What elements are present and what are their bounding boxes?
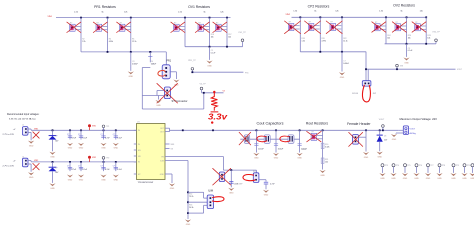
diode D protection (VIN2): [52, 161, 54, 163]
wire stub ST pin2: [142, 95, 164, 97]
junction OV1 lower bus col2: [209, 46, 211, 48]
wire Cout caps horizontal link: [240, 138, 299, 140]
ground below capacitor x70 (VIN2): [67, 175, 73, 178]
svg-text:ILIM: ILIM: [208, 188, 213, 192]
junction CF2 lower bus col2: [319, 51, 321, 53]
svg-text:R?: R?: [289, 22, 291, 24]
svg-text:5k: 5k: [400, 11, 402, 13]
svg-text:GND: GND: [297, 158, 302, 160]
trimmer resistor R3 (PR1, DNP): [96, 22, 107, 31]
svg-text:GND: GND: [392, 139, 397, 141]
svg-text:CP2 Resistors: CP2 Resistors: [308, 5, 330, 9]
wire SJ2 to C13: [259, 179, 266, 181]
svg-text:OV2 Resistors: OV2 Resistors: [393, 4, 415, 8]
svg-text:4.7uF: 4.7uF: [105, 138, 110, 140]
svg-text:C?: C?: [78, 134, 80, 136]
pin U1 left IN y130.3: [134, 129, 137, 131]
junction ILIM net pin3 jog: [187, 212, 189, 214]
wire FB net horizontal to jumpers: [223, 169, 256, 171]
pin U1 left IN y161.9: [134, 161, 137, 163]
svg-text:22V: 22V: [384, 139, 388, 141]
capacitor 0.1uF at x81 (VIN2): [80, 161, 82, 163]
svg-text:GND: GND: [170, 188, 175, 190]
svg-text:TP5: TP5: [407, 165, 410, 167]
svg-text:12k: 12k: [335, 11, 338, 13]
wire CF2 column 2: [319, 17, 321, 52]
junction OV2 col 1 on top bus: [385, 16, 387, 18]
red X no-fit mark over jumper SJ1: [213, 168, 231, 185]
wire PR1 column 2: [107, 18, 109, 52]
svg-text:5k: 5k: [314, 11, 316, 13]
wire OV1 column 1: [184, 18, 186, 47]
wire stub J2 pin1: [28, 160, 31, 162]
mounting part MTG1: [403, 126, 408, 135]
op-amp / regulator U1 TPS7A4701: [137, 124, 166, 180]
wire PR1_TP net: [191, 71, 243, 73]
wire diode to ground (VIN1): [52, 140, 54, 152]
svg-text:3.32k: 3.32k: [325, 147, 329, 149]
svg-text:GND: GND: [186, 224, 191, 226]
ground below capacitor x70 (VIN1): [67, 143, 73, 146]
red X no-fit mark over C10: [239, 132, 251, 145]
ground below TP5: [402, 173, 408, 176]
wire to ILIM pin2: [188, 201, 207, 203]
junction PR1 col 3 on top bus: [130, 17, 132, 19]
ground below C3: [128, 71, 134, 74]
trimmer resistor R17 (OV1, DNP): [216, 22, 227, 31]
svg-text:OV1 Resistors: OV1 Resistors: [188, 5, 210, 9]
junction ILIM net top jog: [187, 191, 189, 193]
svg-text:VOUT: VOUT: [410, 128, 416, 130]
jumper SJ1 (crossed, DNP): [219, 172, 224, 182]
wire stub ST pin1: [157, 90, 164, 92]
pin U1 left EP y174: [134, 173, 137, 175]
svg-text:C?: C?: [67, 166, 69, 168]
svg-text:JMP: JMP: [373, 93, 377, 95]
svg-text:VZ: VZ: [223, 90, 226, 92]
wire jog to ILIM pin1: [188, 191, 204, 193]
wire ILIM vertical bus: [187, 161, 189, 220]
wire diode to ground (VIN2): [52, 171, 54, 183]
junction FB net at cap column: [230, 169, 232, 171]
wire CF2 lower bus: [300, 51, 366, 53]
test point TP3 (spare): [381, 164, 384, 167]
svg-text:GND: GND: [340, 77, 345, 79]
red X no-fit mark over CF2 trimmer 2: [305, 21, 321, 34]
wire vertical joining ST stubs: [156, 91, 158, 96]
svg-text:GND: GND: [462, 178, 467, 180]
trimmer resistor (OV2 col 1, DNP): [375, 22, 386, 31]
svg-text:0.1uF: 0.1uF: [83, 169, 88, 171]
svg-text:VZ_TP: VZ_TP: [200, 84, 207, 86]
trimmer resistor (CF2 col 1, DNP): [288, 22, 299, 31]
svg-text:4.7uF: 4.7uF: [72, 169, 77, 171]
svg-text:GND: GND: [403, 178, 408, 180]
svg-text:VIN1: VIN1: [48, 16, 53, 18]
test point TP6 (spare): [415, 164, 418, 167]
wire OV2 column 1: [385, 17, 387, 44]
test point TP9 (spare): [452, 164, 455, 167]
wire diode D3 to ground: [379, 142, 381, 151]
wire top bus right (VIN2 net): [292, 16, 427, 18]
resistor R30 in Rout column: [321, 143, 324, 148]
svg-text:C?: C?: [113, 134, 115, 136]
svg-text:100uF: 100uF: [278, 149, 284, 151]
red X no-fit mark over female header: [349, 132, 363, 146]
ground left of ST connector: [158, 96, 160, 100]
boxed capacitor near Cout x256.4: [264, 135, 270, 144]
connector ST (2-pin, DNP): [164, 87, 170, 99]
svg-text:GND: GND: [437, 178, 442, 180]
test point TP7 (spare): [427, 164, 430, 167]
wire OV1 column 3: [226, 18, 228, 47]
ground below diode (VIN2): [49, 183, 55, 186]
svg-text:GND: GND: [79, 179, 84, 181]
red X no-fit mark over PR1 trimmer 2: [93, 22, 107, 32]
boxed capacitor near Cout x276: [288, 135, 294, 144]
wire OV2 column 3: [425, 17, 427, 44]
trimmer resistor (OV2 col 2, DNP): [395, 22, 406, 31]
svg-text:4.99k: 4.99k: [322, 41, 326, 43]
svg-text:PR1: PR1: [245, 72, 249, 74]
svg-text:24.3k: 24.3k: [189, 207, 193, 209]
svg-text:PR1 Resistors: PR1 Resistors: [94, 5, 116, 9]
wire OV2 lower bus: [385, 43, 436, 45]
capacitor 4.7uF at x70 (VIN2): [69, 161, 71, 163]
test point TP1: [102, 125, 105, 128]
wire PR1 column 3: [130, 18, 132, 52]
svg-text:TP9: TP9: [456, 165, 459, 167]
red power port VIN1: [88, 124, 91, 127]
svg-text:1.3k: 1.3k: [293, 11, 297, 13]
wire CF2 column 1: [299, 17, 301, 52]
junction Rout on VOUT bus: [322, 129, 324, 131]
wire stub J1 pin1: [28, 128, 31, 130]
resistor R31 in Rout column: [321, 158, 324, 163]
red X no-fit mark near J2: [33, 163, 39, 169]
svg-text:D3: D3: [384, 136, 386, 138]
pin MTG1 VOUT: [398, 129, 403, 131]
trimmer resistor (OV2 col 3, DNP): [415, 22, 426, 31]
ground at J2: [28, 172, 34, 175]
svg-text:FB_JMP: FB_JMP: [236, 183, 244, 185]
junction VOUT bus below 3.3v markup: [212, 129, 214, 131]
trimmer resistor R15 (OV1, DNP): [198, 22, 209, 31]
junction CF2 col 2 on top bus: [319, 16, 321, 18]
svg-text:TP6: TP6: [419, 165, 422, 167]
junction ILIM net pin2: [187, 201, 189, 203]
ground below diode (VIN1): [49, 152, 55, 155]
pin MTG1 Alt Mtg to ground: [396, 132, 403, 134]
wire bottom horizontal of ST connector net: [142, 108, 204, 110]
wire OV1 column 2: [209, 18, 211, 47]
capacitor C9 below OV2 lower bus: [406, 44, 408, 57]
svg-text:1.3k: 1.3k: [379, 11, 383, 13]
svg-text:GND: GND: [229, 193, 234, 195]
wire stub J1 pin2 to ground: [28, 131, 31, 133]
red X no-fit mark near J1: [33, 132, 39, 138]
junction VOUT bus at x182.8: [182, 129, 184, 131]
svg-text:10k: 10k: [211, 36, 214, 38]
pin U1 SNS stub: [165, 143, 170, 145]
svg-text:PR1: PR1: [166, 60, 171, 63]
junction CF2 col 1 on top bus: [299, 16, 301, 18]
wire left vertical of ST connector net: [141, 68, 143, 110]
ground below TP4: [390, 173, 396, 176]
svg-text:+V: +V: [13, 129, 16, 131]
svg-text:GND: GND: [414, 178, 419, 180]
svg-text:TP2: TP2: [106, 158, 109, 160]
red markup loop around jumper JP1: [362, 85, 370, 102]
svg-text:GND: GND: [320, 175, 325, 177]
ground at U1 GND pin: [169, 183, 175, 186]
svg-text:PR1_TP: PR1_TP: [188, 60, 196, 62]
pin U1 SS stub: [165, 148, 170, 150]
pin U1 FB wire: [165, 156, 223, 158]
ground below ILIM vertical bus: [185, 219, 191, 222]
svg-text:Rout Resistors: Rout Resistors: [306, 121, 329, 125]
capacitor 0.1uF at x115.8 (VIN1): [115, 129, 117, 131]
svg-text:TP8: TP8: [442, 165, 445, 167]
trimmer resistor R1 (PR1, DNP): [70, 22, 81, 31]
connector J1 (input power): [22, 127, 28, 136]
wire FB net vertical: [222, 157, 224, 171]
ground below female header column: [363, 152, 369, 155]
pin U1 left IN y144: [134, 143, 137, 145]
svg-text:C4: C4: [152, 63, 154, 65]
junction OV2 col 3 on top bus: [425, 16, 427, 18]
junction PR1 lower bus corner: [149, 51, 151, 53]
svg-text:SENSE: SENSE: [352, 93, 359, 95]
red markup loop around jumper SJ2: [243, 175, 255, 181]
svg-text:0.68uF: 0.68uF: [132, 63, 138, 65]
svg-text:0.1uF: 0.1uF: [83, 138, 88, 140]
svg-text:10k: 10k: [228, 36, 231, 38]
red markup resistor (hand-drawn zigzag): [211, 93, 219, 112]
wire VOUT sense net y69: [366, 68, 456, 70]
red X no-fit mark over OV1 trimmer 3: [213, 22, 227, 32]
ground below C13: [263, 190, 269, 193]
svg-text:10k: 10k: [387, 38, 390, 40]
ground below Cout x276: [273, 153, 279, 156]
svg-text:5k: 5k: [101, 11, 103, 13]
wire input rail VIN2: [31, 161, 136, 163]
svg-text:D?: D?: [55, 167, 57, 169]
ground below TP8: [436, 173, 442, 176]
junction OV2 lower bus col2: [406, 43, 408, 45]
svg-text:TP7: TP7: [430, 165, 433, 167]
ground below TP7: [425, 173, 431, 176]
svg-text:12k: 12k: [220, 11, 223, 13]
junction VZ wire at vertical: [203, 92, 205, 94]
red X no-fit mark over ST connector: [157, 83, 178, 103]
red markup dot above output bus: [211, 121, 213, 123]
svg-text:2.2k: 2.2k: [74, 11, 78, 13]
ground below C12: [228, 188, 234, 191]
capacitor 4.7uF at x103.5 (VIN2): [103, 161, 105, 163]
svg-text:GND: GND: [79, 148, 84, 150]
wire PR1 lower bus: [81, 51, 150, 53]
svg-text:GND: GND: [29, 177, 34, 179]
svg-text:2.2k: 2.2k: [178, 11, 182, 13]
capacitor 4.7uF at x103.5 (VIN1): [103, 129, 105, 131]
wire top bus left (VIN1 net): [56, 17, 231, 19]
red X no-fit mark over PR1 trimmer 3: [117, 22, 131, 32]
svg-text:R?: R?: [174, 22, 176, 24]
svg-text:R?: R?: [70, 22, 72, 24]
svg-text:Recommended input voltages:: Recommended input voltages:: [7, 113, 40, 116]
svg-text:10k: 10k: [408, 38, 411, 40]
wire horizontal joining verticals: [142, 67, 150, 69]
svg-text:10k: 10k: [325, 161, 328, 163]
svg-text:VIN2: VIN2: [286, 14, 291, 16]
svg-text:3.3v: 3.3v: [208, 112, 228, 122]
svg-text:GND: GND: [274, 158, 279, 160]
svg-text:GND: GND: [364, 157, 369, 159]
junction OV1 col 1 on top bus: [184, 17, 186, 19]
wire vertical up to VZ wire: [203, 93, 205, 109]
ground below TP10: [461, 173, 467, 176]
svg-text:0.1uF: 0.1uF: [408, 50, 413, 52]
svg-text:2.7V to 13V: 2.7V to 13V: [3, 165, 15, 168]
pin U1 ILIM wire: [165, 160, 188, 162]
wire input rail VIN1: [31, 129, 136, 131]
svg-text:SJ2: SJ2: [253, 171, 256, 173]
svg-text:0.1uF: 0.1uF: [117, 138, 122, 140]
ground at MTG1 Alt Mtg pin: [391, 134, 397, 137]
svg-text:4.99k: 4.99k: [109, 41, 113, 43]
capacitor 4.7uF at x70 (VIN1): [69, 129, 71, 131]
test point TP8 (spare): [438, 164, 441, 167]
trimmer resistor R13 (OV1, DNP): [174, 22, 185, 31]
ground below Cout x256.4: [253, 153, 259, 156]
svg-text:30V: 30V: [55, 141, 59, 143]
svg-text:GND: GND: [380, 178, 385, 180]
svg-text:GND: GND: [451, 178, 456, 180]
svg-text:TPS7A4701RGW: TPS7A4701RGW: [138, 181, 154, 184]
wire jog to ILIM pin3: [188, 212, 204, 214]
ground below C9: [403, 58, 409, 61]
svg-text:D?: D?: [55, 136, 57, 138]
ground below Rout column: [320, 170, 326, 173]
junction CF2 lower bus col3: [341, 51, 343, 53]
svg-text:Female Header: Female Header: [347, 122, 371, 126]
wire PR1 column 1: [80, 18, 82, 52]
svg-text:GND: GND: [156, 105, 161, 107]
svg-text:GND: GND: [68, 148, 73, 150]
svg-text:Alt Mtg: Alt Mtg: [410, 132, 416, 135]
svg-text:R?: R?: [331, 22, 333, 24]
svg-text:Cout Capacitors: Cout Capacitors: [257, 121, 284, 125]
svg-text:73.2k: 73.2k: [189, 196, 193, 198]
svg-text:0.1uF: 0.1uF: [211, 53, 216, 55]
diode D3 output clamp: [379, 129, 381, 131]
svg-text:12.1k: 12.1k: [343, 41, 347, 43]
svg-text:R?: R?: [309, 22, 311, 24]
svg-text:R?: R?: [396, 22, 398, 24]
capacitor C13: [264, 181, 268, 183]
svg-text:R?: R?: [415, 22, 417, 24]
test point TP10 (spare): [463, 164, 466, 167]
test point TP4 (spare): [392, 164, 395, 167]
svg-text:+V: +V: [13, 161, 16, 163]
wire OV2 column 2: [406, 17, 408, 44]
junction OV1 col 2 on top bus: [209, 17, 211, 19]
junction at JP1 column: [365, 68, 367, 70]
ground below C7: [339, 72, 345, 75]
red X no-fit mark over CF2 trimmer 3: [326, 21, 342, 34]
junction PR1 col 2 on top bus: [107, 17, 109, 19]
svg-text:100uF: 100uF: [258, 149, 264, 151]
svg-text:GND: GND: [129, 76, 134, 78]
svg-text:C?: C?: [101, 134, 103, 136]
ground below TP9: [450, 173, 456, 176]
svg-text:GND: GND: [50, 157, 55, 159]
junction OV1 lower bus col3: [226, 46, 228, 48]
capacitor 100uF station on VOUT bus x299.6: [299, 129, 301, 131]
wire stub J2 pin2 to ground: [28, 163, 31, 165]
red X no-fit mark over OV2 trimmer 1: [372, 22, 386, 32]
svg-text:J1: J1: [22, 125, 24, 127]
ground below capacitor x81 (VIN1): [78, 143, 84, 146]
svg-text:TP1: TP1: [106, 126, 109, 128]
trimmer resistor (CF2 col 2, DNP): [308, 22, 319, 31]
ground below TP3: [379, 173, 385, 176]
ground below capacitor x81 (VIN2): [78, 175, 84, 178]
red X no-fit mark over PR1 trimmer 1: [67, 22, 81, 32]
ground below capacitor x103.5 (VIN1): [100, 143, 106, 146]
svg-text:2.2k: 2.2k: [82, 41, 85, 43]
svg-text:VIN: VIN: [400, 65, 404, 67]
ground at J1: [28, 141, 34, 144]
svg-text:4.7uF: 4.7uF: [270, 183, 275, 185]
svg-text:VIN2: VIN2: [92, 157, 96, 159]
connector female header (2-pin, DNP): [353, 135, 359, 145]
junction PR1 lower bus col2: [107, 51, 109, 53]
trimmer resistor Rout (DNP): [311, 132, 322, 141]
ground below C5: [206, 61, 212, 64]
wire VZ net: [202, 92, 224, 94]
svg-text:GND: GND: [101, 179, 106, 181]
red X no-fit mark over OV1 trimmer 1: [171, 22, 185, 32]
svg-text:0.68uF: 0.68uF: [343, 63, 349, 65]
svg-text:R?: R?: [199, 22, 201, 24]
svg-text:C?: C?: [78, 166, 80, 168]
svg-text:C?: C?: [67, 134, 69, 136]
capacitor C10 (crossed, DNP boxed cap): [244, 135, 249, 144]
svg-text:GND: GND: [377, 156, 382, 158]
svg-text:ST Connector: ST Connector: [172, 99, 188, 103]
svg-text:Maximum Output Voltage: 22V: Maximum Output Voltage: 22V: [400, 117, 438, 121]
svg-text:2.7V to 13V: 2.7V to 13V: [3, 133, 15, 136]
jumper SJ2 (selected): [255, 170, 257, 173]
svg-text:C?: C?: [101, 166, 103, 168]
svg-text:VOUT: VOUT: [379, 119, 385, 121]
svg-text:SNS: SNS: [171, 144, 175, 146]
red power port VIN2: [88, 156, 91, 159]
svg-text:GND: GND: [50, 188, 55, 190]
svg-text:12.1k: 12.1k: [132, 41, 136, 43]
connector PR1 (3-pin header): [162, 65, 170, 79]
svg-text:10k: 10k: [427, 38, 430, 40]
svg-text:GND: GND: [254, 158, 259, 160]
capacitor C12 on FB net: [230, 170, 232, 187]
ground below Cout x299.6: [297, 153, 303, 156]
test point TP2: [102, 157, 105, 160]
ground below TP11: [469, 173, 474, 176]
svg-text:GND: GND: [114, 148, 119, 150]
svg-text:J2: J2: [22, 156, 24, 158]
